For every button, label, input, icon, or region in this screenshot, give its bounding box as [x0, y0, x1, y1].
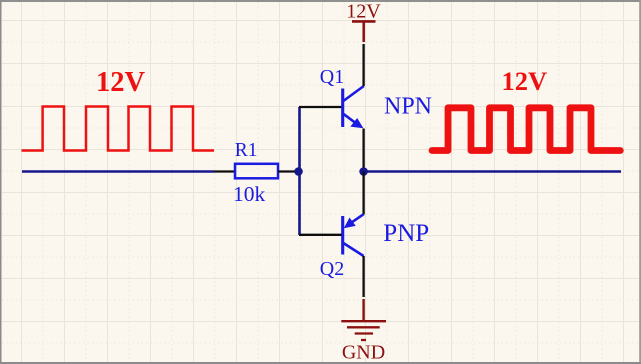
svg-text:Q1: Q1 — [320, 66, 344, 88]
svg-text:12V: 12V — [96, 67, 146, 98]
svg-text:PNP: PNP — [383, 220, 429, 247]
svg-text:12V: 12V — [502, 66, 548, 96]
resistor R1 body — [235, 164, 278, 179]
transistor Q2 (PNP) body — [343, 214, 364, 256]
svg-text:GND: GND — [342, 342, 385, 364]
label GND — [342, 342, 385, 364]
junction node output — [359, 167, 368, 176]
label 12V supply — [346, 1, 381, 23]
transistor Q1 pin collector — [362, 44, 364, 86]
svg-text:NPN: NPN — [384, 93, 432, 119]
label R1 — [235, 140, 258, 161]
wire base net (vertical) — [298, 107, 301, 235]
resistor R1 pin 2 — [278, 170, 298, 172]
label NPN — [384, 93, 432, 119]
transistor Q2 pin emitter — [362, 172, 364, 215]
svg-text:R1: R1 — [235, 140, 258, 161]
wire output net — [364, 170, 621, 173]
svg-text:10k: 10k — [233, 182, 266, 206]
label Q2 — [320, 258, 344, 280]
junction node base — [294, 167, 303, 176]
transistor Q2 pin collector — [362, 256, 364, 297]
ground — [341, 299, 386, 340]
svg-text:12V: 12V — [346, 1, 381, 23]
power port 12V bar — [352, 21, 376, 42]
wire input net — [22, 170, 214, 172]
resistor R1 pin 1 — [214, 170, 235, 172]
label PNP — [383, 220, 429, 247]
label 12V output amplitude — [502, 66, 548, 96]
label Q1 — [320, 66, 344, 88]
value 10k — [233, 182, 266, 206]
label 12V input amplitude — [96, 67, 146, 98]
transistor Q2 pin base — [299, 234, 342, 236]
input waveform (square wave) — [22, 107, 215, 151]
svg-text:Q2: Q2 — [320, 258, 344, 280]
output waveform (square wave) — [432, 108, 620, 151]
transistor Q1 pin emitter — [362, 129, 364, 172]
transistor Q1 (NPN) body — [343, 86, 364, 128]
transistor Q1 pin base — [299, 106, 342, 108]
